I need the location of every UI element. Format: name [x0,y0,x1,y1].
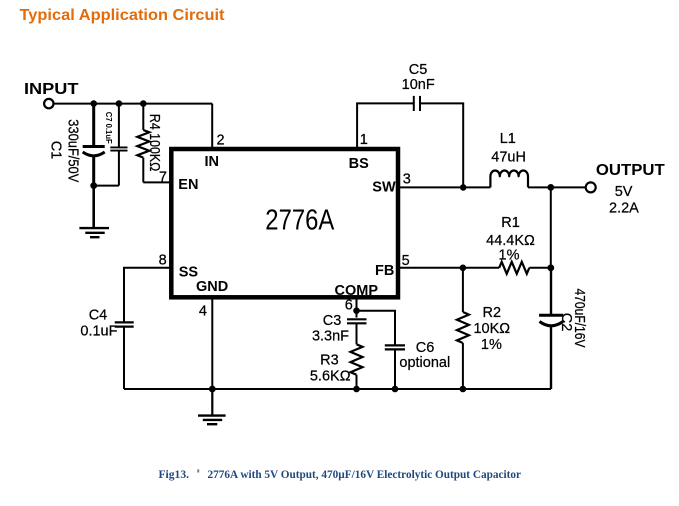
svg-text:10nF: 10nF [402,77,435,93]
wire R4 to EN pin 7 [143,181,171,183]
wire C5 right leg to SW node [420,103,463,187]
capacitor C6 optional [385,340,450,389]
wire FB pin 5 [398,267,463,269]
wire COMP pin 6 [356,297,358,317]
svg-text:7: 7 [159,169,167,185]
svg-text:optional: optional [399,355,450,371]
svg-text:EN: EN [178,177,198,193]
svg-text:3.3nF: 3.3nF [312,329,349,345]
pin 6 label [345,298,353,314]
node INPUT [24,81,79,108]
pin 5 label [402,253,410,269]
pin name IN [205,154,220,170]
pin name COMP [335,283,379,299]
pin name FB [375,263,394,279]
svg-text:10KΩ: 10KΩ [473,321,510,337]
pin name GND [196,279,228,295]
svg-text:470uF/16V: 470uF/16V [571,289,587,348]
svg-text:FB: FB [375,263,394,279]
svg-text:C7 0.1uF: C7 0.1uF [104,112,114,144]
ground input [79,186,109,238]
wire SW to L1 [398,186,490,188]
capacitor C2 470uF/16V [539,268,587,389]
wire FB node to R1 [463,267,499,269]
pin 7 label [159,169,167,185]
svg-text:330uF/50V: 330uF/50V [64,119,80,182]
wire GND pin 4 [211,297,213,389]
junction R2 bottom [460,386,467,393]
wire pin 2 [211,104,213,149]
pin 1 label [360,132,368,148]
wire output node down to R1 node [550,187,552,267]
svg-text:C6: C6 [416,340,435,356]
pin 2 label [217,132,225,148]
junction R1 right [547,264,554,271]
svg-text:1%: 1% [481,337,502,353]
svg-text:L1: L1 [500,131,516,147]
inductor L1 47uH [490,131,528,187]
capacitor C3 3.3nF [312,313,367,344]
svg-text:INPUT: INPUT [24,81,79,98]
junction R4 top [140,100,147,107]
wire BS pin 1 leg [357,103,414,149]
junction C1 bottom [90,182,97,189]
svg-text:Fig13.: Fig13. [159,467,190,481]
junction FB node [460,265,467,272]
wire bottom rail [124,388,551,390]
wire C7 bottom to C1 node [94,185,119,187]
junction SW C5 [460,184,467,191]
svg-text:SW: SW [372,180,396,196]
svg-text:5: 5 [402,253,410,269]
svg-text:1: 1 [360,132,368,148]
svg-text:C3: C3 [323,313,342,329]
svg-text:2: 2 [217,132,225,148]
svg-text:47uH: 47uH [491,150,526,166]
svg-text:IN: IN [205,154,220,170]
svg-text:2776A with 5V Output, 470µF/16: 2776A with 5V Output, 470µF/16V Electrol… [208,467,522,481]
wire input top rail [54,103,213,105]
resistor R2 10K [457,268,510,389]
svg-text:4: 4 [199,304,207,320]
pin name SW [372,180,396,196]
pin name SS [179,264,199,280]
junction R3 bottom [353,386,360,393]
svg-text:5V: 5V [615,184,633,200]
pin 3 label [403,172,411,188]
wire pin6 to C6 [357,311,396,345]
svg-text:0.1uF: 0.1uF [80,323,117,339]
svg-text:BS: BS [349,156,369,172]
svg-text:COMP: COMP [335,283,379,299]
svg-text:2.2A: 2.2A [609,201,639,217]
capacitor C1 330uF/50V [48,104,105,186]
svg-text:1%: 1% [499,248,520,264]
svg-text:R4 100KΩ: R4 100KΩ [146,114,162,172]
capacitor C4 0.1uF [80,308,133,390]
pin name EN [178,177,198,193]
pin 4 label [199,304,207,320]
svg-text:OUTPUT: OUTPUT [596,162,665,179]
junction GND rail [209,386,216,393]
svg-text:GND: GND [196,279,228,295]
capacitor C5 10nF [402,62,435,111]
svg-text:C4: C4 [89,308,108,324]
junction C1 top [90,100,97,107]
svg-text:2776A: 2776A [265,204,334,236]
svg-text:3: 3 [403,172,411,188]
resistor R4 100K [137,104,162,183]
pin name BS [349,156,369,172]
svg-text:Typical Application Circuit: Typical Application Circuit [20,7,226,24]
caption [159,467,522,481]
capacitor C7 0.1uF [104,104,128,186]
svg-text:R3: R3 [320,353,339,369]
resistor R1 44.4K [486,215,535,274]
svg-text:R2: R2 [483,305,502,321]
svg-text:C1: C1 [48,141,64,160]
svg-text:C5: C5 [409,62,428,78]
pin 8 label [159,253,167,269]
junction output node [547,184,554,191]
svg-text:5.6KΩ: 5.6KΩ [310,369,351,385]
title [20,7,226,24]
wire SS pin 8 to C4 [124,268,171,322]
wire R1 to output branch [529,267,551,269]
node OUTPUT terminal [586,162,665,217]
junction C7 top [116,100,123,107]
svg-text:6: 6 [345,298,353,314]
svg-text:R1: R1 [501,215,520,231]
ground main [198,389,226,424]
svg-text:8: 8 [159,253,167,269]
wire L1 to OUTPUT [528,186,586,188]
junction C6 bottom [392,386,399,393]
resistor R3 5.6K [310,344,363,389]
IC U1 2776A body [171,149,398,297]
junction pin 6 [353,307,360,314]
